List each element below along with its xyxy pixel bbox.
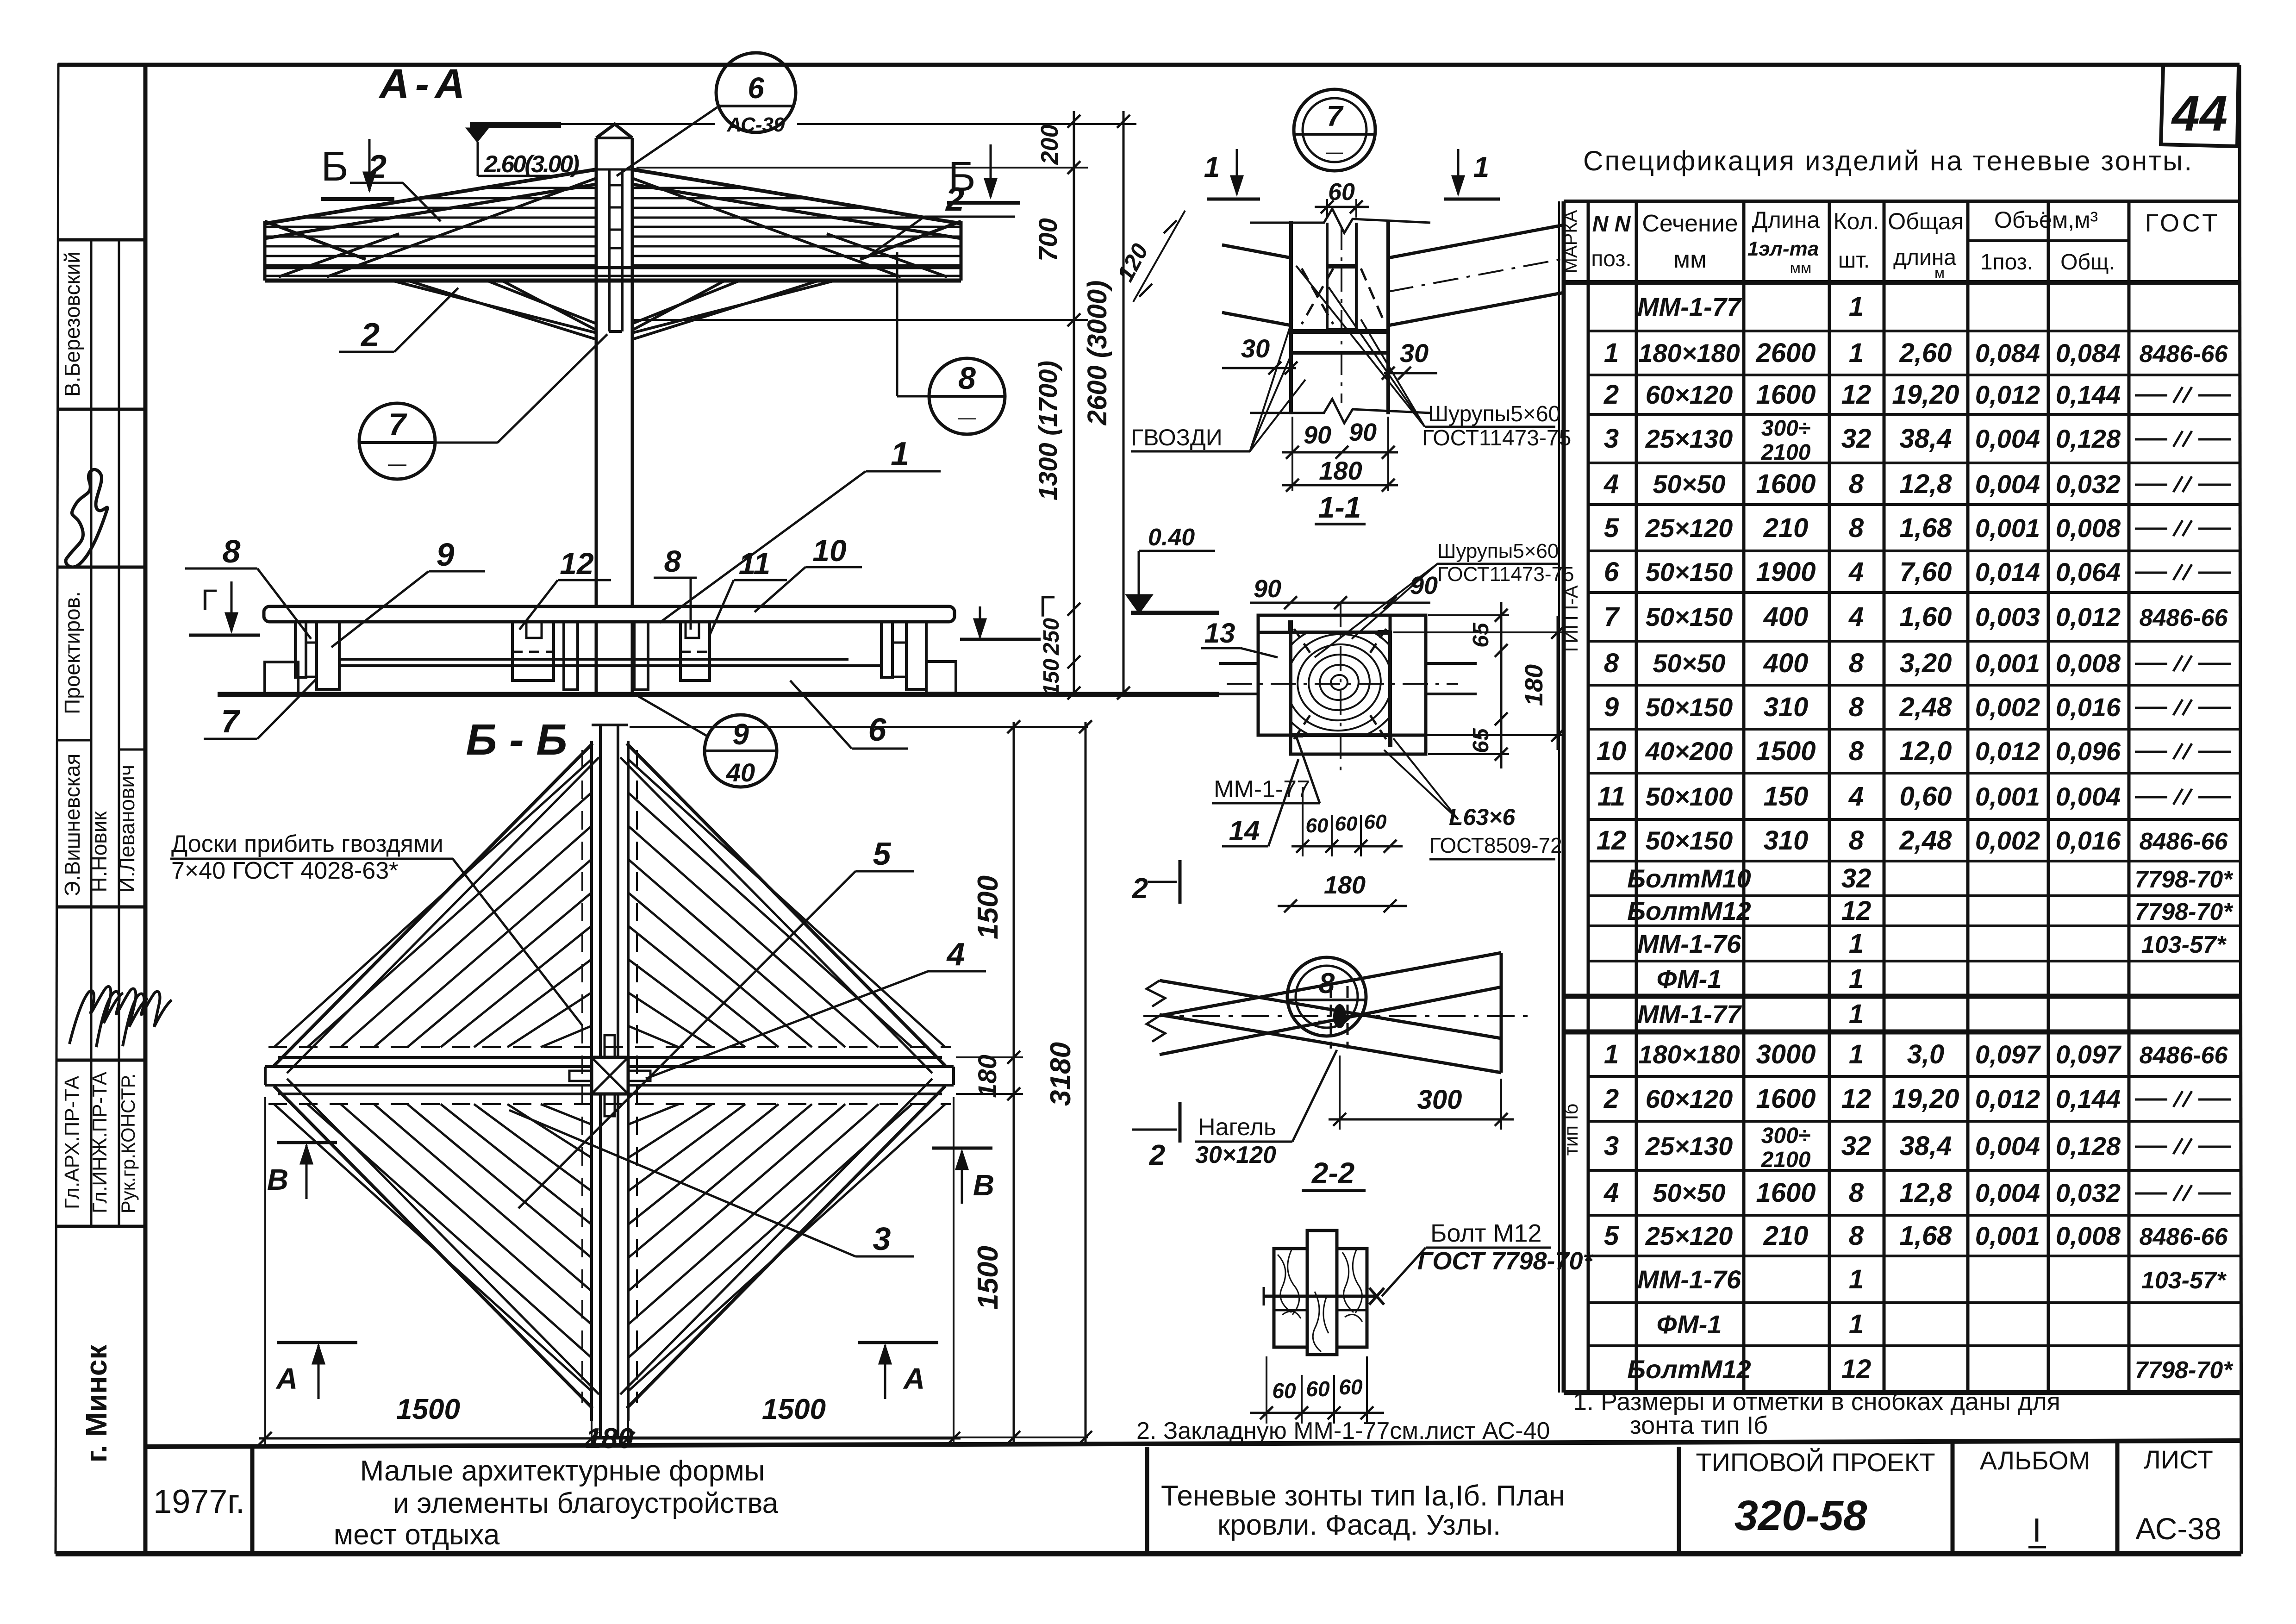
svg-text:32: 32 [1841, 1131, 1872, 1161]
svg-text:50×150: 50×150 [1646, 602, 1733, 631]
svg-text:2100: 2100 [1761, 1148, 1811, 1172]
spec table row line y2325 [1588, 1075, 2240, 1078]
svg-text:250: 250 [1039, 618, 1064, 656]
svg-text:90: 90 [1304, 421, 1331, 449]
plan horizontal beam outer top [278, 1056, 592, 1059]
svg-text:3: 3 [1604, 1131, 1619, 1161]
node7 collar plate [1291, 329, 1388, 334]
svg-text:Б: Б [321, 144, 348, 190]
ground line [218, 692, 1219, 697]
svg-text:60×120: 60×120 [1646, 380, 1733, 409]
stamp row line y884 [57, 408, 145, 411]
svg-text:Рук.гр.КОНСТР.: Рук.гр.КОНСТР. [117, 1074, 139, 1214]
svg-text:320-58: 320-58 [1734, 1492, 1867, 1539]
svg-text:ГОСТ11473-75: ГОСТ11473-75 [1437, 563, 1574, 586]
svg-text:210: 210 [1763, 513, 1809, 543]
svg-text:8: 8 [1849, 513, 1864, 543]
spec table thick line y2152 [1564, 994, 2240, 999]
svg-text:1900: 1900 [1756, 557, 1816, 587]
svg-text:1,68: 1,68 [1900, 513, 1953, 543]
svg-text:7: 7 [1327, 100, 1344, 132]
svg-text:тип Iб: тип Iб [1560, 1104, 1582, 1156]
plan outer edge lower-right [627, 1086, 945, 1408]
svg-text:0,128: 0,128 [2056, 424, 2121, 453]
svg-text:12: 12 [1841, 380, 1872, 410]
svg-text:г. Минск: г. Минск [80, 1344, 113, 1463]
leader circle 9/40 [635, 694, 709, 737]
callout circle 9/40 [705, 715, 777, 787]
node7 shurupy leaders [1361, 319, 1425, 427]
svg-text:12,0: 12,0 [1900, 736, 1952, 766]
svg-text:Э.Вишневская: Э.Вишневская [60, 754, 84, 897]
svg-text:7798-70*: 7798-70* [2134, 866, 2234, 893]
svg-text:310: 310 [1764, 692, 1809, 722]
svg-text:0,008: 0,008 [2056, 649, 2121, 678]
svg-text:Длина: Длина [1752, 207, 1820, 233]
bench center box right [680, 622, 710, 681]
spec table row line y1670 [1588, 772, 2240, 775]
spec table row line y2000 [1588, 924, 2240, 927]
svg-text:0,014: 0,014 [1975, 557, 2040, 587]
plan horizontal beam top lines [265, 1065, 592, 1068]
svg-text:3: 3 [1604, 424, 1619, 454]
post head [595, 138, 598, 169]
svg-text:поз.: поз. [1591, 247, 1632, 271]
svg-text:30: 30 [1241, 334, 1270, 363]
svg-text:3,20: 3,20 [1900, 648, 1952, 678]
section mark V left [277, 1141, 337, 1144]
svg-text:зонта тип Iб: зонта тип Iб [1630, 1412, 1768, 1439]
svg-text:0,012: 0,012 [2056, 602, 2121, 631]
detail11 collar board left [1258, 632, 1291, 735]
detail22 board B [1160, 953, 1501, 1016]
spec table vline x3431 [1587, 201, 1590, 1393]
spec table outer left double line [1562, 201, 1566, 1393]
svg-text:0,004: 0,004 [2056, 782, 2121, 811]
svg-text:2: 2 [367, 149, 387, 186]
plan dashed hidden line left vertical [581, 750, 583, 1403]
plan dashed hidden line bottom [268, 1103, 951, 1105]
svg-text:400: 400 [1763, 648, 1809, 678]
svg-text:8486-66: 8486-66 [2140, 1224, 2228, 1250]
svg-text:103-57*: 103-57* [2141, 931, 2227, 958]
svg-text:2: 2 [360, 317, 380, 354]
svg-text:103-57*: 103-57* [2141, 1267, 2227, 1294]
svg-text:65: 65 [1469, 728, 1493, 753]
svg-text:Шурупы5×60: Шурупы5×60 [1428, 402, 1560, 426]
svg-text:180×180: 180×180 [1638, 1040, 1740, 1069]
svg-text:мм: мм [1790, 259, 1812, 277]
svg-text:1,60: 1,60 [1900, 602, 1952, 632]
svg-text:Нагель: Нагель [1198, 1114, 1276, 1141]
spec table row line y1575 [1588, 728, 2240, 731]
svg-text:210: 210 [1763, 1221, 1809, 1251]
bench right leg board2 [906, 622, 926, 689]
svg-text:1поз.: 1поз. [1980, 250, 2033, 275]
svg-text:5: 5 [873, 836, 892, 872]
svg-text:0,016: 0,016 [2056, 826, 2121, 855]
leader to circle 6 [617, 107, 717, 176]
node7 rafter right bottom [1388, 293, 1564, 325]
stamp signature 1 [69, 987, 123, 1044]
svg-text:0,60: 0,60 [1900, 781, 1952, 812]
svg-text:1: 1 [891, 436, 909, 473]
svg-text:50×50: 50×50 [1653, 1178, 1725, 1207]
svg-text:ММ-1-76: ММ-1-76 [1637, 1265, 1741, 1294]
spec table vline x3535 [1635, 201, 1638, 1393]
svg-text:м: м [1934, 264, 1945, 281]
svg-text:1,68: 1,68 [1900, 1221, 1953, 1251]
detail22 centerline [1143, 1015, 1528, 1017]
bolt detail left board [1274, 1249, 1307, 1347]
detail11 collar board right [1390, 615, 1426, 735]
svg-text:2600: 2600 [1755, 338, 1816, 368]
detail22 right end [1500, 953, 1503, 1073]
bench legs left of post [564, 622, 578, 690]
svg-text:19,20: 19,20 [1892, 380, 1959, 410]
svg-text:8: 8 [958, 361, 976, 396]
svg-text:мест отдыха: мест отдыха [334, 1519, 500, 1551]
svg-text:5: 5 [1604, 1221, 1619, 1251]
svg-text:АС-38: АС-38 [2135, 1512, 2221, 1546]
svg-text:4: 4 [946, 936, 965, 972]
spec table row line y1480 [1588, 684, 2240, 687]
node7 rafter right top [1388, 225, 1564, 258]
outer border bottom [56, 1551, 2241, 1556]
svg-text:1-1: 1-1 [1318, 491, 1361, 524]
svg-text:ГОСТ11473-75: ГОСТ11473-75 [1422, 426, 1571, 450]
svg-text:I: I [2032, 1512, 2041, 1549]
svg-text:8: 8 [223, 533, 241, 569]
plan vertical beam ends [592, 724, 628, 726]
spec table row line y1000 [1588, 462, 2240, 464]
spec table row line y2907 [1588, 1344, 2240, 1347]
left tip pennant diagonal 2 [279, 234, 399, 277]
svg-text:0,002: 0,002 [1975, 826, 2040, 855]
stamp cell line y1619 col3 [119, 749, 145, 751]
svg-text:300÷: 300÷ [1761, 416, 1810, 441]
svg-text:ТИПОВОЙ ПРОЕКТ: ТИПОВОЙ ПРОЕКТ [1696, 1448, 1935, 1477]
stamp row line y1959 [56, 906, 145, 909]
svg-text:1: 1 [1204, 151, 1220, 183]
svg-text:2600 (3000): 2600 (3000) [1082, 281, 1112, 426]
plan horizontal beam bottom lines [265, 1084, 592, 1087]
svg-text:—: — [388, 454, 406, 474]
spec table header bottom line [1564, 280, 2240, 285]
svg-text:300: 300 [1417, 1085, 1462, 1115]
svg-text:180: 180 [586, 1423, 633, 1455]
svg-text:14: 14 [1229, 815, 1260, 846]
L63x6 leaders [1393, 738, 1458, 819]
svg-text:30: 30 [1400, 338, 1429, 368]
svg-text:0,004: 0,004 [1975, 1131, 2040, 1161]
spec table row line y810 [1588, 374, 2240, 376]
svg-text:ГОСТ8509-72: ГОСТ8509-72 [1429, 833, 1562, 857]
rafter right bottom edge [632, 184, 961, 238]
stamp row line y2649 [56, 1225, 145, 1228]
svg-text:7: 7 [388, 407, 407, 442]
svg-text:И.Леванович: И.Леванович [115, 765, 139, 893]
stamp column vertical line 1 [90, 240, 93, 1226]
detail11 shurupy leaders [1352, 564, 1437, 639]
bolt detail right board grain [1342, 1250, 1362, 1322]
svg-text:30×120: 30×120 [1195, 1142, 1276, 1168]
svg-text:АС-39: АС-39 [727, 113, 785, 136]
roof inner slope left [327, 178, 596, 277]
svg-text:АЛЬБОМ: АЛЬБОМ [1980, 1446, 2090, 1475]
ridge strip [608, 169, 611, 331]
roof inner slope right [632, 178, 901, 277]
svg-text:Н.Новик: Н.Новик [87, 811, 111, 893]
plan dashed hidden line right vertical [636, 750, 638, 1403]
svg-text:0,032: 0,032 [2056, 1178, 2121, 1207]
bolt detail center board [1307, 1230, 1337, 1355]
plan dim line right x2345 [1085, 722, 1087, 1442]
svg-text:шт.: шт. [1838, 248, 1870, 273]
detail11 beam stub right [1426, 662, 1477, 665]
stamp column vertical line 2 [118, 240, 120, 1226]
callout circle 7 node double [1294, 89, 1375, 171]
svg-text:0,004: 0,004 [1975, 1178, 2040, 1207]
svg-text:2: 2 [1603, 1084, 1619, 1114]
plan vertical beam left lines [599, 725, 602, 1057]
section mark A left [277, 1341, 357, 1344]
leader circle 8 [897, 395, 929, 398]
svg-text:7: 7 [1604, 602, 1620, 632]
stamp signature 2 [96, 989, 148, 1047]
svg-text:—: — [1326, 142, 1343, 161]
svg-text:ТИП I-А: ТИП I-А [1560, 585, 1582, 655]
bench left leg cleat [306, 643, 317, 677]
svg-text:1500: 1500 [972, 875, 1004, 939]
spec table vline x4599 [2128, 201, 2131, 1393]
node7 rafter right centerline [1388, 259, 1564, 292]
plan outer edge upper-right [627, 743, 945, 1066]
plan vertical beam outer left [590, 741, 593, 1057]
svg-text:0,097: 0,097 [1975, 1040, 2041, 1069]
spec table row line y2422 [1588, 1120, 2240, 1123]
svg-text:5: 5 [1604, 513, 1619, 543]
bolt detail left board grain [1278, 1250, 1301, 1318]
stamp row line y1225 [57, 566, 145, 569]
node7 rafter right end [1563, 225, 1565, 293]
svg-text:60: 60 [1364, 811, 1387, 833]
svg-text:180: 180 [1324, 871, 1366, 899]
svg-text:0,008: 0,008 [2056, 513, 2121, 543]
svg-text:38,4: 38,4 [1900, 1131, 1952, 1161]
svg-text:11: 11 [739, 546, 771, 581]
svg-text:кровли. Фасад. Узлы.: кровли. Фасад. Узлы. [1217, 1509, 1501, 1541]
svg-text:8: 8 [1604, 648, 1619, 678]
bolt detail horizontal split right [1337, 1309, 1367, 1312]
svg-text:4: 4 [1848, 781, 1864, 812]
svg-text:Гл.АРХ.ПР-ТА: Гл.АРХ.ПР-ТА [61, 1075, 83, 1209]
svg-text:ММ-1-76: ММ-1-76 [1637, 929, 1741, 958]
svg-text:10: 10 [812, 533, 847, 568]
svg-text:ГОСТ: ГОСТ [2145, 209, 2220, 237]
svg-text:2: 2 [1149, 1139, 1165, 1171]
outer border left [56, 63, 58, 1554]
svg-text:1: 1 [1849, 929, 1864, 959]
svg-text:1600: 1600 [1756, 1178, 1816, 1208]
plan horizontal beam ends [264, 1067, 267, 1085]
svg-text:и элементы благоустройства: и элементы благоустройства [393, 1487, 779, 1519]
bench center box left [512, 622, 554, 681]
spec table row line y2625 [1588, 1214, 2240, 1217]
svg-text:0,001: 0,001 [1975, 513, 2040, 543]
spec table row line y2528 [1588, 1169, 2240, 1172]
bench rail [340, 658, 849, 661]
svg-text:В: В [267, 1163, 288, 1196]
svg-text:Гл.ИНЖ.ПР-ТА: Гл.ИНЖ.ПР-ТА [88, 1071, 111, 1213]
detail11 dim extensions right [1428, 614, 1509, 616]
svg-text:ГОСТ 7798-70*: ГОСТ 7798-70* [1417, 1247, 1594, 1275]
roof board lines [484, 187, 596, 189]
node7 break line bottom [1250, 399, 1430, 423]
svg-text:1977г.: 1977г. [153, 1483, 245, 1520]
svg-text:0,084: 0,084 [2056, 338, 2121, 368]
callout circle 8 node [1287, 957, 1366, 1036]
spec table header objem split [1968, 239, 2129, 242]
ridge strip rungs [609, 184, 622, 187]
svg-text:150: 150 [1039, 659, 1064, 696]
plan dim line bottom [259, 1437, 961, 1440]
bench right leg board1 [881, 622, 892, 677]
svg-text:2,48: 2,48 [1899, 825, 1953, 856]
svg-text:1600: 1600 [1756, 1084, 1816, 1114]
bench legs right of post [634, 622, 648, 690]
plan hatch upper-left quadrant [274, 759, 592, 1047]
svg-text:6: 6 [748, 71, 764, 105]
left tip pennant vertical [263, 221, 267, 281]
svg-text:2: 2 [1603, 380, 1619, 410]
svg-text:—: — [958, 407, 976, 428]
svg-text:Малые архитектурные формы: Малые архитектурные формы [360, 1455, 765, 1487]
svg-text:1500: 1500 [972, 1246, 1004, 1310]
section mark V right [932, 1147, 992, 1150]
svg-text:БолтМ12: БолтМ12 [1627, 1355, 1751, 1384]
svg-text:1: 1 [1849, 999, 1864, 1029]
svg-text:180×180: 180×180 [1638, 338, 1740, 368]
svg-text:ФМ-1: ФМ-1 [1657, 964, 1722, 993]
svg-text:0,128: 0,128 [2056, 1131, 2121, 1161]
detail22 board A [1160, 981, 1501, 1038]
brace left inner pair [488, 281, 596, 324]
svg-text:1эл-та: 1эл-та [1747, 237, 1819, 260]
svg-text:180: 180 [1520, 664, 1548, 706]
svg-text:50×150: 50×150 [1646, 693, 1733, 722]
detail22 left break B [1147, 1016, 1165, 1042]
spec table row line y1190 [1588, 550, 2240, 552]
svg-text:25×120: 25×120 [1645, 513, 1733, 543]
svg-text:БолтМ10: БолтМ10 [1627, 864, 1751, 893]
svg-text:8: 8 [1849, 648, 1864, 678]
svg-text:0,084: 0,084 [1975, 338, 2040, 368]
svg-text:2: 2 [945, 181, 964, 218]
leader doski [453, 859, 582, 1025]
detail11 beam stub left [1219, 662, 1258, 665]
svg-text:0,144: 0,144 [2056, 1084, 2121, 1113]
svg-text:12,8: 12,8 [1900, 1178, 1953, 1208]
svg-text:3180: 3180 [1045, 1042, 1077, 1106]
plan hatch lower-left quadrant [274, 1104, 592, 1391]
outer border top [58, 63, 2240, 67]
plan outer edge lower-left [274, 1086, 593, 1408]
dim extension y262 [561, 123, 715, 125]
svg-text:12: 12 [1597, 825, 1627, 856]
svg-text:ЛИСТ: ЛИСТ [2144, 1445, 2213, 1474]
svg-text:1500: 1500 [1756, 736, 1816, 766]
plan center square [592, 1057, 628, 1094]
bolt detail right board [1337, 1249, 1367, 1347]
svg-text:300÷: 300÷ [1761, 1124, 1810, 1148]
plan dim extensions right [630, 726, 1088, 728]
svg-text:мм: мм [1673, 246, 1707, 273]
node7 post right edge [1386, 221, 1390, 414]
svg-text:60: 60 [1272, 1379, 1296, 1403]
bench right ground block [926, 662, 956, 693]
right tip pennant diagonal 2 [827, 234, 947, 277]
svg-text:1500: 1500 [396, 1393, 460, 1425]
svg-text:1: 1 [1849, 338, 1864, 368]
svg-text:12: 12 [1841, 896, 1872, 926]
plan dashed hidden line top [268, 1046, 951, 1048]
svg-text:8: 8 [1849, 1178, 1864, 1208]
svg-text:2-2: 2-2 [1311, 1156, 1355, 1190]
spec table bottom line [1564, 1390, 2240, 1395]
brace left outer pair [393, 281, 596, 333]
svg-text:8486-66: 8486-66 [2140, 828, 2228, 855]
svg-text:6: 6 [1604, 557, 1619, 587]
spec table vline x4425 [2047, 201, 2050, 1393]
svg-text:1: 1 [1849, 1039, 1864, 1069]
svg-text:0,012: 0,012 [1975, 1084, 2040, 1113]
node7 break line top [1250, 209, 1430, 233]
svg-text:Кол.: Кол. [1834, 208, 1879, 234]
detail11 corner angle marks [1288, 620, 1293, 632]
svg-text:0,001: 0,001 [1975, 1221, 2040, 1250]
spec table row line y1935 [1588, 894, 2240, 897]
spec table vline x3952 [1828, 201, 1831, 1393]
svg-text:0,001: 0,001 [1975, 782, 2040, 811]
svg-text:3: 3 [873, 1221, 891, 1257]
spec table row line y1385 [1588, 640, 2240, 643]
detail22 nagel dashed [1330, 986, 1332, 1049]
svg-text:50×50: 50×50 [1653, 469, 1725, 499]
bolt detail bolt head X [1369, 1288, 1384, 1305]
section mark A right [858, 1341, 938, 1344]
svg-text:Шурупы5×60: Шурупы5×60 [1437, 540, 1559, 562]
svg-text:12: 12 [1841, 1354, 1872, 1384]
svg-text:180: 180 [973, 1055, 1002, 1098]
svg-text:7: 7 [221, 703, 241, 739]
svg-text:8: 8 [1849, 1221, 1864, 1251]
node7 screw dashed lines [1302, 269, 1333, 324]
svg-text:60: 60 [1306, 814, 1329, 837]
svg-text:0,097: 0,097 [2056, 1040, 2122, 1069]
svg-text:1600: 1600 [1756, 380, 1816, 410]
svg-text:ММ-1-77: ММ-1-77 [1214, 776, 1310, 803]
bench top plank [264, 606, 955, 622]
detail11 collar board top [1258, 615, 1390, 632]
svg-text:0,001: 0,001 [1975, 649, 2040, 678]
title block divider x4218 [1951, 1442, 1955, 1554]
bolt detail horizontal split left [1274, 1309, 1307, 1312]
title block divider x545 [250, 1447, 255, 1554]
svg-text:0,096: 0,096 [2056, 737, 2121, 766]
svg-text:8: 8 [664, 544, 681, 578]
svg-text:32: 32 [1841, 424, 1872, 454]
